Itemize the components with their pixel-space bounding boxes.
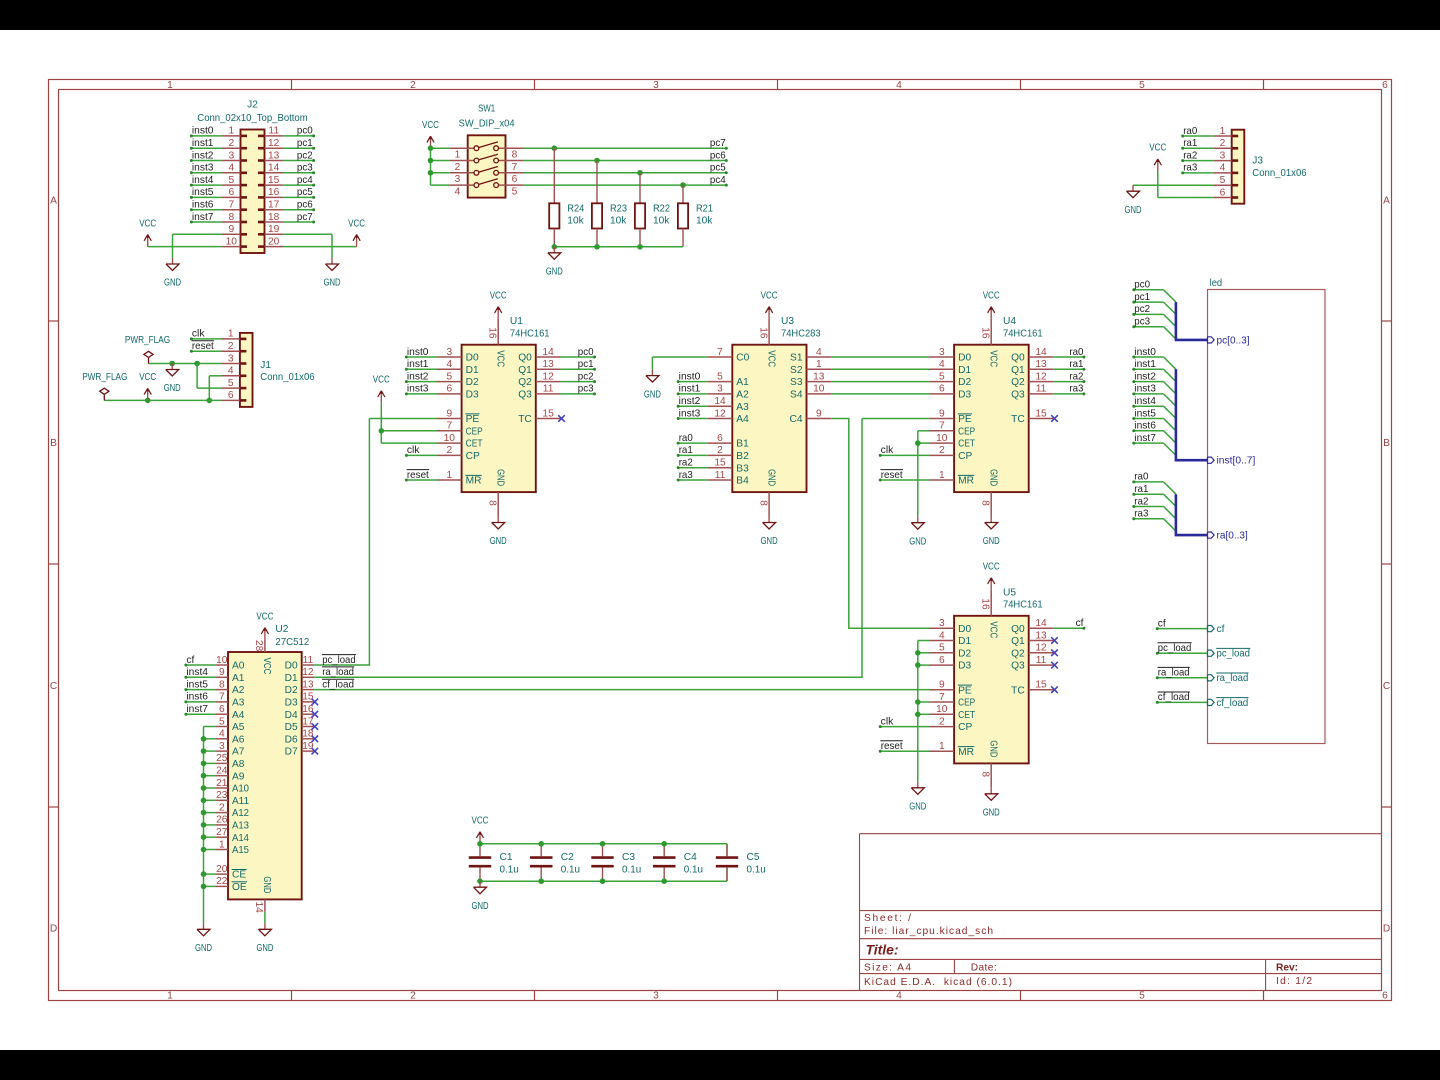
svg-text:ra1: ra1 — [1134, 484, 1148, 495]
svg-text:CET: CET — [958, 439, 975, 450]
svg-text:3: 3 — [1220, 150, 1226, 161]
svg-text:CP: CP — [958, 451, 972, 462]
svg-text:13: 13 — [1035, 359, 1047, 370]
svg-text:U3: U3 — [781, 316, 794, 327]
svg-text:CET: CET — [958, 710, 975, 721]
svg-text:reset: reset — [881, 470, 903, 481]
svg-text:3: 3 — [939, 618, 945, 629]
svg-text:8: 8 — [980, 771, 991, 777]
svg-text:VCC: VCC — [987, 621, 998, 638]
svg-text:A0: A0 — [232, 661, 245, 672]
svg-text:inst[0..7]: inst[0..7] — [1217, 456, 1256, 467]
svg-text:A8: A8 — [232, 759, 245, 770]
svg-text:6: 6 — [228, 390, 234, 401]
svg-text:J2: J2 — [247, 99, 258, 110]
svg-text:A2: A2 — [736, 390, 749, 401]
svg-text:KiCad E.D.A. kicad (6.0.1): KiCad E.D.A. kicad (6.0.1) — [864, 977, 1012, 988]
svg-text:B: B — [50, 438, 57, 449]
svg-text:CP: CP — [958, 722, 972, 733]
svg-text:1: 1 — [1220, 126, 1226, 137]
svg-text:B1: B1 — [736, 439, 749, 450]
svg-text:GND: GND — [261, 876, 272, 893]
svg-text:4: 4 — [228, 163, 234, 174]
svg-text:15: 15 — [542, 408, 554, 419]
svg-text:VCC: VCC — [987, 350, 998, 367]
svg-text:8: 8 — [228, 212, 234, 223]
svg-text:R23: R23 — [610, 203, 627, 214]
svg-text:inst0: inst0 — [679, 371, 701, 382]
svg-text:10k: 10k — [653, 216, 670, 227]
svg-text:CP: CP — [466, 451, 480, 462]
svg-text:J3: J3 — [1252, 155, 1263, 166]
svg-text:pc6: pc6 — [710, 150, 726, 161]
svg-text:6: 6 — [1220, 187, 1226, 198]
svg-text:ra2: ra2 — [1134, 496, 1148, 507]
svg-text:2: 2 — [939, 716, 945, 727]
svg-text:ra_load: ra_load — [322, 667, 354, 678]
svg-text:15: 15 — [1035, 680, 1047, 691]
svg-text:inst4: inst4 — [186, 667, 208, 678]
svg-text:14: 14 — [253, 902, 264, 914]
svg-text:inst6: inst6 — [186, 692, 208, 703]
svg-text:A11: A11 — [232, 796, 249, 807]
svg-text:OE: OE — [232, 882, 247, 893]
svg-text:74HC161: 74HC161 — [1003, 329, 1043, 340]
svg-text:C4: C4 — [789, 414, 802, 425]
svg-text:VCC: VCC — [422, 120, 439, 131]
svg-text:A1: A1 — [232, 673, 245, 684]
svg-text:inst3: inst3 — [1134, 384, 1156, 395]
svg-text:Conn_01x06: Conn_01x06 — [260, 372, 315, 383]
svg-text:6: 6 — [446, 384, 452, 395]
svg-text:A4: A4 — [736, 414, 749, 425]
svg-text:Q0: Q0 — [1011, 624, 1025, 635]
svg-text:ra_load: ra_load — [1158, 668, 1190, 679]
svg-text:1: 1 — [167, 990, 173, 1001]
svg-text:reset: reset — [192, 341, 214, 352]
svg-text:D3: D3 — [466, 390, 479, 401]
svg-text:3: 3 — [717, 384, 723, 395]
svg-text:24: 24 — [216, 766, 228, 777]
svg-text:A15: A15 — [232, 845, 249, 856]
svg-text:D0: D0 — [285, 661, 298, 672]
svg-text:4: 4 — [1220, 163, 1226, 174]
svg-text:inst1: inst1 — [1134, 359, 1156, 370]
svg-text:7: 7 — [446, 421, 452, 432]
svg-text:22: 22 — [216, 876, 228, 887]
svg-text:SW_DIP_x04: SW_DIP_x04 — [459, 118, 515, 129]
svg-text:C: C — [50, 681, 57, 692]
svg-text:MR: MR — [958, 476, 974, 487]
svg-text:PE: PE — [958, 685, 972, 696]
svg-text:8: 8 — [980, 500, 991, 506]
svg-text:U2: U2 — [275, 624, 288, 635]
svg-text:74HC161: 74HC161 — [510, 329, 550, 340]
svg-text:inst2: inst2 — [192, 150, 214, 161]
svg-text:pc1: pc1 — [578, 359, 594, 370]
svg-text:10k: 10k — [610, 216, 627, 227]
svg-text:clk: clk — [881, 716, 895, 727]
svg-text:16: 16 — [980, 327, 991, 339]
svg-text:TC: TC — [1011, 414, 1025, 425]
svg-text:S2: S2 — [790, 365, 803, 376]
svg-text:pc3: pc3 — [297, 163, 313, 174]
svg-text:ra1: ra1 — [1183, 138, 1197, 149]
svg-text:led: led — [1210, 278, 1223, 289]
svg-text:3: 3 — [455, 174, 461, 185]
svg-text:D3: D3 — [285, 698, 298, 709]
svg-text:CEP: CEP — [958, 698, 975, 709]
svg-text:inst7: inst7 — [186, 704, 208, 715]
svg-text:inst2: inst2 — [407, 371, 429, 382]
svg-text:cf: cf — [1158, 618, 1166, 629]
svg-text:10: 10 — [936, 433, 948, 444]
svg-text:inst5: inst5 — [192, 187, 214, 198]
svg-text:D0: D0 — [466, 353, 479, 364]
svg-text:GND: GND — [546, 266, 563, 277]
svg-text:Q0: Q0 — [518, 353, 532, 364]
svg-text:inst0: inst0 — [1134, 347, 1156, 358]
svg-text:5: 5 — [512, 186, 518, 197]
svg-text:CET: CET — [466, 439, 483, 450]
svg-text:PWR_FLAG: PWR_FLAG — [125, 335, 170, 346]
svg-text:13: 13 — [813, 371, 825, 382]
svg-text:A10: A10 — [232, 784, 249, 795]
svg-text:5: 5 — [939, 371, 945, 382]
svg-text:6: 6 — [939, 384, 945, 395]
svg-text:5: 5 — [228, 175, 234, 186]
svg-text:PE: PE — [466, 414, 480, 425]
svg-text:2: 2 — [219, 802, 225, 813]
svg-text:Rev:: Rev: — [1276, 962, 1298, 973]
svg-text:9: 9 — [219, 667, 225, 678]
svg-text:4: 4 — [896, 80, 902, 91]
svg-text:inst2: inst2 — [679, 396, 701, 407]
svg-text:8: 8 — [512, 150, 518, 161]
svg-text:C4: C4 — [684, 852, 697, 863]
svg-text:7: 7 — [939, 692, 945, 703]
svg-text:19: 19 — [268, 224, 280, 235]
svg-text:D2: D2 — [466, 377, 479, 388]
svg-text:CEP: CEP — [466, 426, 483, 437]
svg-text:pc5: pc5 — [297, 187, 313, 198]
svg-text:VCC: VCC — [373, 375, 390, 386]
svg-text:26: 26 — [216, 815, 228, 826]
svg-text:VCC: VCC — [494, 350, 505, 367]
svg-text:S4: S4 — [790, 390, 803, 401]
svg-text:0.1u: 0.1u — [561, 864, 580, 875]
svg-text:Q0: Q0 — [1011, 353, 1025, 364]
svg-text:14: 14 — [1035, 618, 1047, 629]
svg-text:8: 8 — [757, 500, 768, 506]
svg-text:S3: S3 — [790, 377, 803, 388]
svg-text:Title:: Title: — [866, 942, 899, 958]
svg-text:0.1u: 0.1u — [500, 864, 519, 875]
svg-text:1: 1 — [816, 359, 822, 370]
svg-text:5: 5 — [446, 371, 452, 382]
svg-text:inst0: inst0 — [407, 347, 429, 358]
svg-text:D1: D1 — [466, 365, 479, 376]
svg-text:B3: B3 — [736, 463, 749, 474]
svg-text:Conn_02x10_Top_Bottom: Conn_02x10_Top_Bottom — [197, 113, 307, 124]
svg-text:Q3: Q3 — [1011, 390, 1025, 401]
svg-text:cf_load: cf_load — [322, 679, 354, 690]
svg-text:D1: D1 — [958, 365, 971, 376]
svg-text:GND: GND — [909, 536, 926, 547]
svg-text:1: 1 — [228, 126, 234, 137]
svg-text:C2: C2 — [561, 852, 574, 863]
svg-text:16: 16 — [487, 327, 498, 339]
svg-text:ra0: ra0 — [1134, 472, 1148, 483]
svg-text:pc_load: pc_load — [1217, 649, 1251, 660]
svg-text:5: 5 — [1220, 175, 1226, 186]
svg-text:10: 10 — [936, 704, 948, 715]
svg-text:pc7: pc7 — [297, 212, 313, 223]
svg-text:10k: 10k — [567, 216, 584, 227]
svg-text:inst1: inst1 — [679, 384, 701, 395]
svg-text:2: 2 — [446, 445, 452, 456]
svg-text:10: 10 — [216, 655, 228, 666]
svg-text:inst3: inst3 — [679, 408, 701, 419]
svg-text:File: liar_cpu.kicad_sch: File: liar_cpu.kicad_sch — [864, 926, 993, 937]
svg-text:13: 13 — [542, 359, 554, 370]
svg-text:1: 1 — [167, 80, 173, 91]
svg-text:VCC: VCC — [256, 611, 273, 622]
svg-text:Q3: Q3 — [518, 390, 532, 401]
svg-text:pc3: pc3 — [1134, 317, 1150, 328]
svg-text:ra0: ra0 — [1069, 347, 1083, 358]
svg-text:GND: GND — [765, 469, 776, 486]
svg-text:Q1: Q1 — [1011, 365, 1025, 376]
svg-text:C3: C3 — [622, 852, 635, 863]
svg-text:12: 12 — [302, 667, 314, 678]
svg-text:0.1u: 0.1u — [622, 864, 641, 875]
svg-text:inst3: inst3 — [407, 384, 429, 395]
svg-text:4: 4 — [939, 359, 945, 370]
svg-text:2: 2 — [717, 445, 723, 456]
svg-text:20: 20 — [268, 236, 280, 247]
svg-text:Q1: Q1 — [518, 365, 532, 376]
svg-text:2: 2 — [410, 990, 416, 1001]
svg-text:GND: GND — [164, 383, 181, 394]
svg-text:11: 11 — [543, 384, 554, 395]
svg-text:5: 5 — [1139, 80, 1145, 91]
svg-text:pc1: pc1 — [297, 138, 313, 149]
svg-text:ra3: ra3 — [679, 470, 693, 481]
svg-text:R21: R21 — [696, 203, 713, 214]
svg-text:1: 1 — [446, 470, 452, 481]
svg-text:3: 3 — [939, 347, 945, 358]
svg-text:inst4: inst4 — [1134, 396, 1156, 407]
svg-text:6: 6 — [1382, 80, 1388, 91]
svg-text:S1: S1 — [790, 353, 803, 364]
svg-text:inst1: inst1 — [192, 138, 214, 149]
svg-text:25: 25 — [216, 753, 228, 764]
svg-text:A14: A14 — [232, 833, 249, 844]
svg-text:14: 14 — [714, 396, 726, 407]
svg-text:MR: MR — [958, 747, 974, 758]
svg-text:11: 11 — [715, 470, 726, 481]
svg-text:17: 17 — [268, 200, 280, 211]
svg-text:D2: D2 — [958, 377, 971, 388]
svg-text:GND: GND — [761, 536, 778, 547]
svg-text:D1: D1 — [958, 636, 971, 647]
svg-text:D0: D0 — [958, 353, 971, 364]
svg-text:4: 4 — [896, 990, 902, 1001]
svg-text:28: 28 — [253, 640, 264, 652]
svg-text:GND: GND — [983, 536, 1000, 547]
svg-text:9: 9 — [939, 408, 945, 419]
svg-text:CE: CE — [232, 870, 246, 881]
svg-text:11: 11 — [1036, 384, 1047, 395]
svg-text:ra[0..3]: ra[0..3] — [1217, 531, 1248, 542]
svg-text:Q1: Q1 — [1011, 636, 1025, 647]
svg-text:Q2: Q2 — [518, 377, 532, 388]
svg-text:2: 2 — [228, 138, 234, 149]
svg-text:D5: D5 — [285, 722, 298, 733]
svg-text:clk: clk — [881, 445, 895, 456]
svg-text:VCC: VCC — [139, 372, 156, 383]
svg-text:13: 13 — [302, 679, 314, 690]
svg-text:4: 4 — [446, 359, 452, 370]
svg-text:D2: D2 — [958, 648, 971, 659]
svg-text:D0: D0 — [958, 624, 971, 635]
svg-text:A6: A6 — [232, 734, 245, 745]
svg-text:8: 8 — [219, 679, 225, 690]
svg-text:PWR_FLAG: PWR_FLAG — [82, 372, 127, 383]
svg-text:6: 6 — [228, 187, 234, 198]
svg-text:ra0: ra0 — [679, 433, 693, 444]
svg-text:A3: A3 — [232, 698, 245, 709]
svg-text:74HC283: 74HC283 — [781, 329, 821, 340]
svg-text:3: 3 — [219, 741, 225, 752]
svg-text:D3: D3 — [958, 661, 971, 672]
svg-text:15: 15 — [302, 692, 314, 703]
svg-text:VCC: VCC — [765, 350, 776, 367]
svg-text:16: 16 — [757, 327, 768, 339]
svg-text:ra2: ra2 — [679, 458, 693, 469]
svg-text:pc4: pc4 — [710, 175, 726, 186]
svg-text:U4: U4 — [1003, 316, 1016, 327]
svg-text:7: 7 — [219, 692, 225, 703]
svg-text:GND: GND — [983, 808, 1000, 819]
svg-text:B2: B2 — [736, 451, 749, 462]
svg-text:ra1: ra1 — [679, 445, 693, 456]
svg-text:VCC: VCC — [761, 290, 778, 301]
svg-text:16: 16 — [268, 187, 280, 198]
svg-text:5: 5 — [939, 643, 945, 654]
svg-text:14: 14 — [542, 347, 554, 358]
svg-text:VCC: VCC — [983, 562, 1000, 573]
svg-text:3: 3 — [228, 150, 234, 161]
svg-text:D1: D1 — [285, 673, 298, 684]
svg-text:0.1u: 0.1u — [747, 864, 766, 875]
svg-text:inst6: inst6 — [1134, 421, 1156, 432]
svg-text:21: 21 — [216, 778, 228, 789]
svg-text:11: 11 — [303, 655, 314, 666]
svg-text:Q2: Q2 — [1011, 648, 1025, 659]
svg-text:pc0: pc0 — [297, 126, 313, 137]
svg-text:10: 10 — [444, 433, 456, 444]
svg-text:9: 9 — [816, 408, 822, 419]
svg-text:23: 23 — [216, 790, 228, 801]
svg-text:MR: MR — [466, 476, 482, 487]
svg-text:pc1: pc1 — [1134, 292, 1150, 303]
svg-text:GND: GND — [494, 469, 505, 486]
svg-text:15: 15 — [1035, 408, 1047, 419]
svg-text:14: 14 — [268, 163, 280, 174]
svg-text:10: 10 — [226, 236, 238, 247]
svg-text:ra3: ra3 — [1069, 384, 1083, 395]
svg-text:R24: R24 — [567, 203, 584, 214]
svg-text:D4: D4 — [285, 710, 298, 721]
svg-text:A4: A4 — [232, 710, 245, 721]
svg-text:A13: A13 — [232, 821, 249, 832]
svg-text:U1: U1 — [510, 316, 523, 327]
svg-text:6: 6 — [1382, 990, 1388, 1001]
svg-text:2: 2 — [228, 341, 234, 352]
svg-text:D3: D3 — [958, 390, 971, 401]
svg-text:Q3: Q3 — [1011, 661, 1025, 672]
svg-text:1: 1 — [939, 470, 945, 481]
svg-text:4: 4 — [455, 186, 461, 197]
svg-text:3: 3 — [446, 347, 452, 358]
svg-text:U5: U5 — [1003, 587, 1016, 598]
svg-text:Date:: Date: — [971, 963, 997, 974]
svg-text:CEP: CEP — [958, 426, 975, 437]
svg-text:27: 27 — [216, 827, 228, 838]
svg-text:inst7: inst7 — [192, 212, 214, 223]
svg-text:GND: GND — [1125, 205, 1142, 216]
svg-text:D: D — [1383, 924, 1390, 935]
svg-text:cf_load: cf_load — [1158, 692, 1190, 703]
svg-text:12: 12 — [1035, 371, 1047, 382]
svg-text:A9: A9 — [232, 771, 245, 782]
svg-text:D: D — [50, 924, 57, 935]
svg-text:ra1: ra1 — [1069, 359, 1083, 370]
svg-text:J1: J1 — [260, 360, 271, 371]
svg-text:1: 1 — [228, 329, 234, 340]
svg-text:ra3: ra3 — [1134, 509, 1148, 520]
svg-text:16: 16 — [980, 598, 991, 610]
svg-text:inst2: inst2 — [1134, 371, 1156, 382]
svg-text:D2: D2 — [285, 685, 298, 696]
svg-text:inst7: inst7 — [1134, 433, 1156, 444]
svg-text:4: 4 — [228, 366, 234, 377]
svg-text:inst4: inst4 — [192, 175, 214, 186]
svg-text:inst3: inst3 — [192, 163, 214, 174]
svg-text:13: 13 — [1035, 630, 1047, 641]
svg-text:reset: reset — [407, 470, 429, 481]
svg-text:A3: A3 — [736, 402, 749, 413]
svg-text:4: 4 — [816, 347, 822, 358]
svg-text:18: 18 — [268, 212, 280, 223]
svg-text:1: 1 — [219, 839, 225, 850]
svg-text:6: 6 — [717, 433, 723, 444]
svg-text:GND: GND — [987, 469, 998, 486]
svg-text:6: 6 — [939, 655, 945, 666]
svg-text:GND: GND — [324, 278, 341, 289]
svg-text:SW1: SW1 — [478, 103, 495, 114]
svg-text:inst1: inst1 — [407, 359, 429, 370]
svg-text:0.1u: 0.1u — [684, 864, 703, 875]
svg-text:2: 2 — [939, 445, 945, 456]
svg-text:14: 14 — [1035, 347, 1047, 358]
svg-text:5: 5 — [219, 716, 225, 727]
svg-text:C1: C1 — [500, 852, 513, 863]
svg-text:15: 15 — [268, 175, 280, 186]
svg-text:C5: C5 — [747, 852, 760, 863]
